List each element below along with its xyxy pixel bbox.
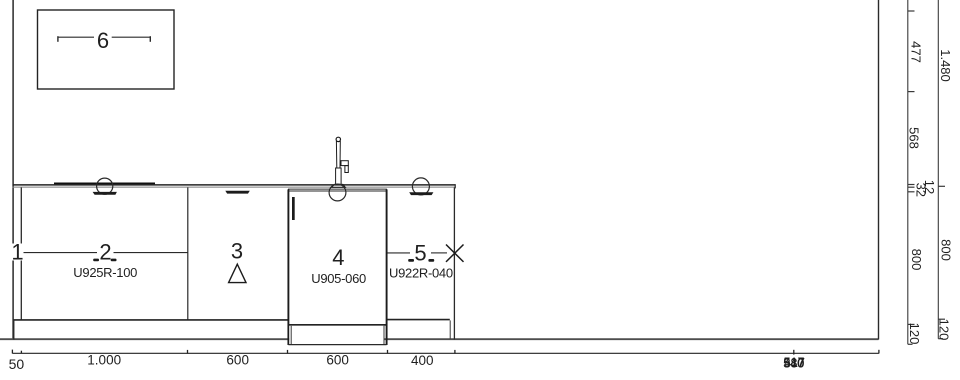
handle cabinet 2 xyxy=(93,192,117,195)
svg-text:120: 120 xyxy=(937,319,952,341)
triangle marker cabinet 3 xyxy=(229,264,246,282)
dim text 120 outer xyxy=(937,319,952,341)
hinge dash left of 2 xyxy=(93,259,99,262)
plinth front left vertical xyxy=(13,320,15,340)
svg-text:600: 600 xyxy=(226,353,249,368)
dishwasher kick panel xyxy=(288,326,386,345)
countertop right end cap xyxy=(454,184,456,188)
vertical dimension chain outer xyxy=(938,0,945,339)
svg-text:477: 477 xyxy=(908,41,923,63)
handle cabinet 5 xyxy=(409,192,433,195)
label U922R-040 xyxy=(389,265,453,280)
X end marker xyxy=(446,245,464,262)
svg-text:4: 4 xyxy=(332,245,344,270)
bottom dimension line xyxy=(12,350,879,355)
svg-text:U905-060: U905-060 xyxy=(311,271,366,286)
svg-text:400: 400 xyxy=(411,353,434,368)
hinge dash left of 5 xyxy=(408,259,414,262)
svg-text:800: 800 xyxy=(939,239,954,261)
floor line xyxy=(0,338,879,340)
label U925R-100 xyxy=(73,265,137,280)
faucet xyxy=(332,137,349,187)
base cabinets bottom line xyxy=(14,319,288,321)
svg-text:1: 1 xyxy=(11,240,23,265)
knob circle cabinet 2 xyxy=(97,178,113,194)
knob circle cabinet 5 xyxy=(412,178,429,195)
dishwasher right edge xyxy=(386,189,388,345)
svg-text:U925R-100: U925R-100 xyxy=(73,265,137,280)
legend box 6 xyxy=(38,10,175,89)
dim text 50 xyxy=(9,356,25,372)
dishwasher handle bar xyxy=(292,197,295,220)
dim text 600 a xyxy=(226,353,249,368)
dim text 800 outer xyxy=(939,239,954,261)
dim text 400 xyxy=(411,353,434,368)
vertical dimension chain inner xyxy=(908,0,915,344)
dim text 800 inner xyxy=(909,249,924,271)
label 6 xyxy=(97,28,109,53)
hob line on worktop xyxy=(54,182,155,184)
svg-text:5: 5 xyxy=(414,241,426,266)
cabinet 2/3 divider xyxy=(187,188,189,320)
label U905-060 xyxy=(311,271,366,286)
legend dimension line xyxy=(58,36,151,42)
cabinet 5 plinth xyxy=(449,320,451,339)
dim text 477 xyxy=(908,41,923,63)
svg-text:800: 800 xyxy=(909,249,924,271)
label 2 xyxy=(99,239,111,264)
label 1 xyxy=(11,240,24,265)
svg-text:3: 3 xyxy=(231,238,243,263)
countertop top edge xyxy=(13,184,456,186)
dim text 600 b xyxy=(326,353,349,368)
dishwasher left edge xyxy=(287,189,289,345)
handle cabinet 3 xyxy=(225,191,250,194)
dim text 1.480 xyxy=(938,49,953,82)
dim text 12 xyxy=(922,180,937,194)
svg-text:120: 120 xyxy=(907,323,922,345)
dim text 568 xyxy=(907,127,922,149)
leader line item 1-2 xyxy=(22,252,188,254)
cabinet 2 left edge xyxy=(20,188,22,320)
cabinet 5 right edge xyxy=(453,188,455,340)
countertop bottom edge xyxy=(13,186,456,188)
svg-text:2: 2 xyxy=(99,239,111,264)
cabinet 5 bottom line xyxy=(388,319,450,321)
dim text 32 xyxy=(913,183,928,197)
dishwasher top lines xyxy=(288,189,387,191)
hinge dash right of 5 xyxy=(428,259,434,262)
right end wall line xyxy=(878,0,880,340)
svg-text:50: 50 xyxy=(9,356,25,372)
svg-text:517: 517 xyxy=(784,356,805,370)
svg-text:600: 600 xyxy=(326,353,349,368)
label 3 xyxy=(231,238,243,263)
hinge dash right of 2 xyxy=(111,259,117,262)
svg-text:568: 568 xyxy=(907,127,922,149)
sink circle xyxy=(329,184,346,201)
svg-text:U922R-040: U922R-040 xyxy=(389,265,453,280)
dim text 1.000 xyxy=(87,353,121,368)
dim text 120 inner xyxy=(907,323,922,345)
label 4 xyxy=(332,245,344,270)
dishwasher door bottom xyxy=(289,324,386,326)
svg-text:32: 32 xyxy=(913,183,928,197)
svg-text:1.480: 1.480 xyxy=(938,49,953,82)
svg-text:1.000: 1.000 xyxy=(87,353,121,368)
svg-text:6: 6 xyxy=(97,28,109,53)
wall line left xyxy=(12,0,14,340)
leader line item 5 xyxy=(388,252,448,254)
overlapping dim texts right xyxy=(783,356,805,371)
label 5 xyxy=(414,241,426,266)
